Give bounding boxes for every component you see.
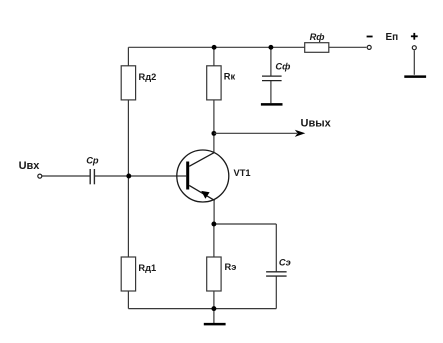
wire: Ce branch down to Ce top plate: [275, 224, 277, 272]
wire: top rail from divider branch to Rf: [128, 46, 304, 48]
wire: center ground lead: [213, 309, 215, 323]
node: collector / output junction: [211, 131, 216, 136]
ground (Cf): [261, 103, 283, 106]
wire: plus terminal down to ground: [413, 50, 415, 75]
capacitor Cr: [90, 169, 94, 184]
svg-text:Cэ: Cэ: [279, 257, 291, 267]
wire: Ce bottom plate to bottom rail: [275, 276, 277, 308]
label minus: [367, 36, 373, 38]
terminal: Ep minus: [367, 45, 371, 49]
wire: base node to Rd1 top: [127, 176, 129, 257]
wire: Rk bottom to collector node: [213, 100, 215, 133]
transistor VT1 circle: [177, 150, 229, 202]
wire: collector node down to transistor: [213, 133, 215, 153]
wire: collector branch top (rail to Rk): [213, 47, 215, 66]
node: emitter junction: [211, 222, 216, 227]
svg-text:Uвх: Uвх: [19, 160, 41, 172]
svg-text:Rф: Rф: [310, 32, 325, 42]
wire: bottom rail: [128, 308, 276, 310]
capacitor Cf: [262, 76, 282, 81]
svg-text:Uвых: Uвых: [301, 117, 332, 129]
svg-text:Eп: Eп: [386, 32, 399, 43]
svg-text:VT1: VT1: [234, 168, 251, 178]
resistor Re: [207, 257, 221, 291]
wire: divider branch top (rail to Rd2): [127, 47, 129, 66]
svg-text:Rд1: Rд1: [138, 263, 156, 273]
transistor VT1 base bar: [186, 162, 189, 190]
transistor VT1 collector stroke: [189, 153, 214, 167]
node: base / divider junction: [126, 174, 131, 179]
wire: input terminal to Cr: [42, 175, 90, 177]
svg-text:Rд2: Rд2: [139, 72, 157, 82]
wire: Rd1 bottom to bottom rail: [127, 291, 129, 309]
transistor VT1 emitter stroke: [189, 185, 214, 200]
node: top rail / Rk junction: [212, 45, 217, 50]
svg-text:Cр: Cр: [86, 156, 99, 166]
wire: emitter node to Re top: [213, 224, 215, 257]
resistor Rf: [305, 43, 329, 53]
node: top rail / Cf junction: [268, 45, 273, 50]
resistor Rd2: [121, 66, 135, 100]
terminal: Ep plus: [412, 46, 416, 50]
wire: Re bottom to bottom rail: [213, 291, 215, 309]
svg-text:Rэ: Rэ: [225, 262, 237, 272]
wire: Cr to transistor base: [95, 175, 186, 177]
resistor Rk: [207, 66, 221, 100]
label plus: [411, 33, 418, 40]
wire: Rf to minus terminal: [329, 46, 367, 48]
svg-text:Cф: Cф: [275, 62, 290, 72]
resistor Rd1: [121, 257, 135, 291]
wire: Cf bottom plate to ground: [270, 81, 272, 104]
capacitor Ce: [266, 272, 287, 276]
node: bottom rail / ground junction: [211, 306, 216, 311]
output arrow: [214, 132, 297, 134]
wire: emitter node to Ce branch: [214, 223, 276, 225]
wire: Cf junction down to Cf top plate: [270, 47, 272, 76]
ground (center): [204, 323, 226, 326]
wire: Rd2 bottom to base node: [127, 100, 129, 176]
transistor VT1 emitter arrow: [201, 191, 209, 199]
ground (Ep plus): [404, 75, 426, 78]
terminal: input: [38, 174, 42, 178]
svg-text:Rк: Rк: [224, 72, 236, 82]
wire: emitter down to emitter node: [213, 200, 215, 224]
